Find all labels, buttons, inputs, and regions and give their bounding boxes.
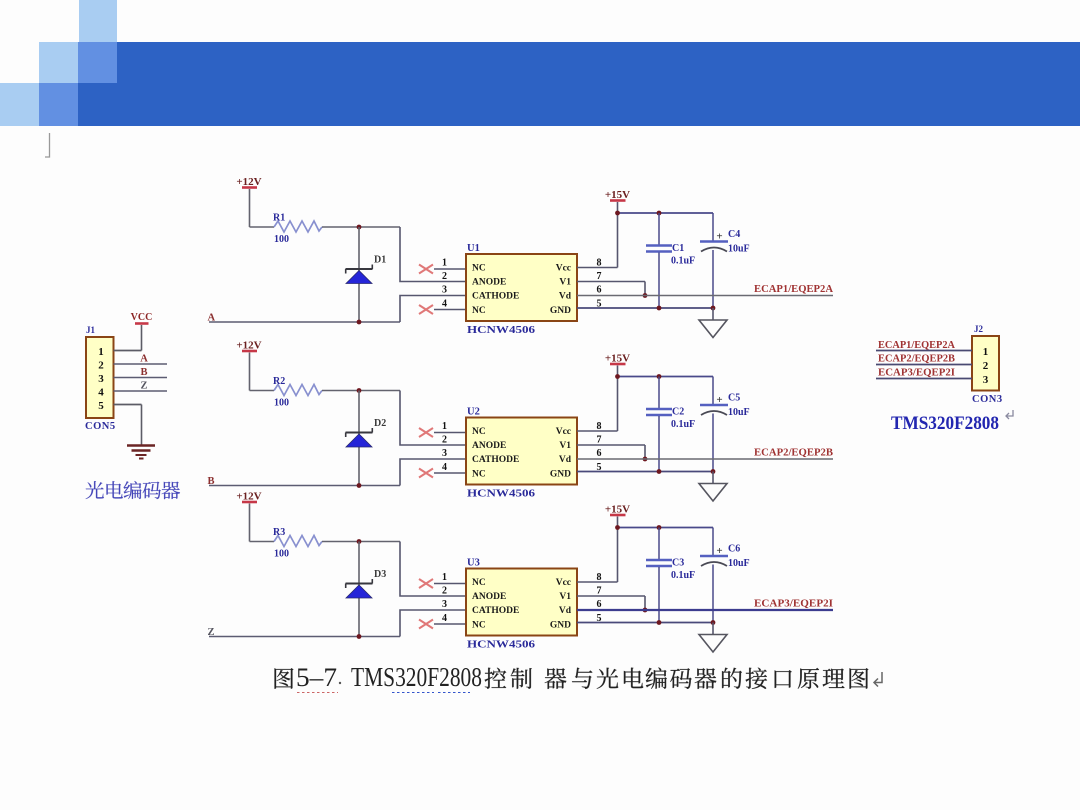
svg-text:2: 2 <box>98 360 104 372</box>
svg-text:U1: U1 <box>467 243 480 254</box>
svg-text:+: + <box>716 231 722 243</box>
svg-text:GND: GND <box>550 306 571 316</box>
svg-text:C4: C4 <box>728 229 740 240</box>
svg-text:CON5: CON5 <box>85 421 116 432</box>
svg-text:C5: C5 <box>728 393 740 404</box>
svg-text:Vd: Vd <box>559 455 572 465</box>
svg-text:1: 1 <box>442 258 447 269</box>
svg-text:Vcc: Vcc <box>556 578 571 588</box>
svg-text:ECAP3/EQEP2I: ECAP3/EQEP2I <box>878 367 955 378</box>
svg-text:2: 2 <box>442 271 447 282</box>
svg-text:3: 3 <box>98 373 104 385</box>
svg-text:3: 3 <box>442 599 447 610</box>
svg-text:D3: D3 <box>374 569 386 580</box>
svg-text:3: 3 <box>983 374 989 386</box>
svg-text:0.1uF: 0.1uF <box>671 419 695 430</box>
svg-text:+: + <box>716 545 722 557</box>
svg-text:Vcc: Vcc <box>556 264 571 274</box>
svg-text:NC: NC <box>472 306 486 316</box>
svg-text:V1: V1 <box>559 278 571 288</box>
svg-text:4: 4 <box>98 387 104 399</box>
svg-text:10uF: 10uF <box>728 407 750 418</box>
svg-text:10uF: 10uF <box>728 244 750 255</box>
svg-text:0.1uF: 0.1uF <box>671 256 695 267</box>
svg-text:ECAP2/EQEP2B: ECAP2/EQEP2B <box>754 448 833 459</box>
svg-text:2: 2 <box>442 435 447 446</box>
svg-text:C6: C6 <box>728 544 740 555</box>
svg-text:2: 2 <box>442 586 447 597</box>
svg-text:2: 2 <box>983 360 989 372</box>
svg-text:1: 1 <box>98 346 104 358</box>
svg-text:1: 1 <box>442 572 447 583</box>
svg-text:TMS320F2808: TMS320F2808 <box>891 413 999 434</box>
svg-text:C2: C2 <box>672 407 684 418</box>
svg-text:A: A <box>208 313 216 324</box>
svg-text:1: 1 <box>983 346 989 358</box>
svg-text:10uF: 10uF <box>728 558 750 569</box>
svg-text:7: 7 <box>597 586 602 597</box>
svg-text:ANODE: ANODE <box>472 278 506 288</box>
svg-text:7: 7 <box>597 435 602 446</box>
svg-text:5: 5 <box>98 400 104 412</box>
svg-text:B: B <box>140 367 147 378</box>
svg-text:TMS320F2808: TMS320F2808 <box>351 662 482 692</box>
svg-text:CATHODE: CATHODE <box>472 455 519 465</box>
svg-text:0.1uF: 0.1uF <box>671 570 695 581</box>
svg-text:100: 100 <box>274 398 289 409</box>
svg-text:HCNW4506: HCNW4506 <box>467 489 535 500</box>
svg-text:ECAP2/EQEP2B: ECAP2/EQEP2B <box>878 354 955 365</box>
svg-text:B: B <box>208 476 215 487</box>
svg-text:100: 100 <box>274 234 289 245</box>
svg-text:HCNW4506: HCNW4506 <box>467 325 535 336</box>
svg-text:Vd: Vd <box>559 606 572 616</box>
svg-text:R2: R2 <box>273 376 285 387</box>
svg-text:Z: Z <box>140 381 147 392</box>
svg-text:GND: GND <box>550 469 571 479</box>
svg-text:V1: V1 <box>559 441 571 451</box>
svg-text:Vd: Vd <box>559 292 572 302</box>
svg-text:100: 100 <box>274 549 289 560</box>
svg-text:1: 1 <box>442 421 447 432</box>
svg-text:U2: U2 <box>467 407 480 418</box>
svg-text:C3: C3 <box>672 558 684 569</box>
svg-text:4: 4 <box>442 613 447 624</box>
svg-text:CATHODE: CATHODE <box>472 606 519 616</box>
svg-text:J1: J1 <box>86 325 96 335</box>
svg-text:U3: U3 <box>467 558 480 569</box>
svg-text:6: 6 <box>597 285 602 296</box>
svg-text:NC: NC <box>472 427 486 437</box>
svg-text:V1: V1 <box>559 592 571 602</box>
svg-text:C1: C1 <box>672 243 684 254</box>
svg-text:VCC: VCC <box>131 312 153 323</box>
svg-text:A: A <box>140 354 148 365</box>
svg-text:ANODE: ANODE <box>472 592 506 602</box>
svg-text:ECAP1/EQEP2A: ECAP1/EQEP2A <box>754 284 834 295</box>
svg-text:Z: Z <box>208 627 215 638</box>
svg-text:CON3: CON3 <box>972 394 1003 405</box>
svg-text:7: 7 <box>597 271 602 282</box>
svg-text:R1: R1 <box>273 213 285 224</box>
svg-text:HCNW4506: HCNW4506 <box>467 640 535 651</box>
svg-text:3: 3 <box>442 285 447 296</box>
svg-text:6: 6 <box>597 599 602 610</box>
svg-text:NC: NC <box>472 578 486 588</box>
svg-text:6: 6 <box>597 448 602 459</box>
svg-text:NC: NC <box>472 620 486 630</box>
svg-text:J2: J2 <box>974 324 984 334</box>
svg-text:D2: D2 <box>374 418 386 429</box>
svg-text:NC: NC <box>472 469 486 479</box>
svg-text:GND: GND <box>550 620 571 630</box>
svg-text:+: + <box>716 394 722 406</box>
svg-text:CATHODE: CATHODE <box>472 292 519 302</box>
svg-text:D1: D1 <box>374 255 386 266</box>
svg-text:NC: NC <box>472 264 486 274</box>
svg-text:3: 3 <box>442 448 447 459</box>
svg-text:ECAP1/EQEP2A: ECAP1/EQEP2A <box>878 340 956 351</box>
svg-text:ECAP3/EQEP2I: ECAP3/EQEP2I <box>754 599 833 610</box>
svg-text:Vcc: Vcc <box>556 427 571 437</box>
svg-text:4: 4 <box>442 298 447 309</box>
svg-text:ANODE: ANODE <box>472 441 506 451</box>
svg-text:4: 4 <box>442 462 447 473</box>
svg-text:R3: R3 <box>273 527 285 538</box>
svg-text:5–7: 5–7 <box>296 663 337 692</box>
